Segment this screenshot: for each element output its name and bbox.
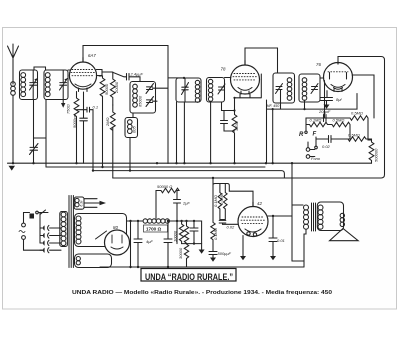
bypass capacitor C7 [221, 111, 235, 132]
tube V5 output 42 [238, 202, 268, 237]
resistor R7 0.1Mohm horizontal [306, 122, 329, 127]
switch pole [315, 146, 318, 149]
grid cap wire V2 [245, 48, 278, 73]
IF2 trimmer [276, 84, 283, 94]
capacitor C9 20uuF [306, 115, 326, 125]
label 1700 [144, 225, 168, 232]
resistor Rb 0.5M vertical [223, 184, 228, 220]
bus 3 [93, 171, 284, 178]
HV winding [76, 216, 81, 244]
svg-text:0.1MΩ: 0.1MΩ [310, 118, 322, 123]
svg-text:76: 76 [316, 62, 321, 67]
svg-text:UNDA “RADIO RURALE.”: UNDA “RADIO RURALE.” [145, 272, 233, 282]
IF transformer 2 primary box B5 [273, 73, 295, 103]
grid resistor R13 [211, 178, 215, 245]
IF1 secondary coil [208, 79, 212, 101]
ground under C17 [210, 258, 216, 262]
svg-text:350Ω: 350Ω [234, 121, 239, 131]
svg-text:0.5MΩ: 0.5MΩ [219, 193, 224, 205]
wire box1 bottom drop [33, 100, 35, 148]
phono jack [306, 148, 310, 152]
bleeder bottom wire [182, 244, 202, 250]
svg-text:500000: 500000 [374, 148, 379, 162]
gang arrow below box2 [62, 100, 64, 104]
coil L1 antenna coil [11, 82, 16, 96]
RF tuned circuit box [44, 70, 68, 100]
fuse block [30, 214, 35, 219]
svg-text:42: 42 [257, 201, 262, 206]
coupling capacitor C15 0.02 [219, 220, 238, 225]
resistor Ra 0.1M vertical [218, 184, 222, 220]
IF2 primary coil [287, 78, 292, 101]
capacitor C5 5000cm [80, 92, 88, 163]
speaker field coil [340, 213, 344, 226]
wire antenna to ground bus [12, 95, 14, 163]
svg-text:0.01: 0.01 [277, 238, 285, 243]
svg-text:500μμF: 500μμF [218, 251, 232, 256]
svg-text:0.1MΩ: 0.1MΩ [213, 228, 218, 240]
svg-text:78: 78 [221, 67, 226, 72]
svg-text:MF. 450: MF. 450 [267, 104, 280, 108]
speaker cone [330, 229, 359, 241]
choke input wire [127, 221, 144, 267]
svg-text:50000: 50000 [104, 83, 109, 95]
wire V2 plate to right [235, 74, 262, 98]
resistor R5 0.5Mohm horizontal [325, 116, 372, 140]
cathode node V2 [235, 94, 241, 114]
trimmer T1 [146, 84, 168, 94]
svg-text:F: F [313, 132, 317, 138]
plate terminal tab of V1 [96, 70, 102, 76]
output transformer secondary [318, 205, 323, 229]
oscillator coil box B1 [130, 82, 156, 114]
switch contact F [315, 137, 317, 146]
svg-text:0.5MΩ: 0.5MΩ [333, 118, 345, 123]
resistor R3 [110, 72, 115, 105]
coil L3 RF coil [45, 73, 50, 97]
wire box2 top to tube grid [68, 69, 70, 71]
speaker box [317, 202, 343, 231]
junction dots on buses [12, 77, 306, 179]
rectifier filament winding [76, 257, 80, 265]
mains wires [24, 213, 44, 251]
svg-text:50000 Ω: 50000 Ω [157, 184, 172, 189]
antenna tuned circuit box [20, 70, 38, 100]
IF2 secondary trimmer [311, 84, 318, 94]
speaker return wire [292, 260, 304, 262]
IF1 secondary trimmer [218, 84, 225, 94]
IF2 secondary coil [302, 78, 307, 101]
capacitor C10 0.02 [316, 136, 346, 143]
screen resistor R2 [99, 76, 105, 168]
transformer bottom wire [304, 230, 306, 268]
grid cap wire V1 to oscillator top [83, 46, 168, 164]
dots bottom [129, 215, 274, 268]
svg-text:6A7: 6A7 [88, 53, 96, 58]
svg-text:2MΩ: 2MΩ [105, 117, 110, 127]
svg-text:80: 80 [113, 225, 118, 230]
tube V1 6A7 [69, 58, 102, 92]
bleeder resistor R11 [179, 221, 183, 244]
cathode ground V5 [242, 236, 244, 257]
svg-text:UNDA RADIO — Modello «Radio Ru: UNDA RADIO — Modello «Radio Rurale». - P… [72, 290, 332, 296]
padder coil [128, 120, 133, 134]
mains squiggle [19, 231, 25, 233]
IF1 trimmer [182, 78, 189, 102]
resistor R6 horizontal [346, 137, 372, 142]
resistor R9 500000 vertical [369, 142, 374, 163]
wire IF2b to V3 grid [320, 77, 324, 79]
bleeder cap C14 [190, 221, 198, 244]
tap contacts row1 [40, 227, 43, 229]
selector bus [40, 213, 44, 244]
trimmer T2 [146, 97, 157, 107]
ground bus [8, 162, 372, 164]
IF1 primary coil [195, 80, 199, 102]
bleeder resistor R12 [184, 221, 188, 267]
svg-text:30000: 30000 [178, 247, 183, 259]
ground arrow left [9, 166, 16, 171]
svg-text:0.5MΩ: 0.5MΩ [348, 133, 360, 138]
transformer core [69, 196, 73, 268]
tube V3 76 [324, 62, 353, 92]
wire IF1 sec to cathode loop [211, 102, 224, 163]
svg-text:2.4μμF: 2.4μμF [130, 72, 144, 77]
wire IF2 ground drop [266, 100, 268, 163]
tap contacts row4 [40, 249, 43, 251]
switch contact R [305, 125, 307, 132]
wire B4 top to tube grid [225, 77, 231, 79]
variable capacitor C1 [30, 70, 38, 100]
IF transformer 1 secondary box B4 [207, 78, 225, 103]
ground under C16 [270, 256, 276, 260]
capacitor C13 2uF [174, 200, 181, 244]
wire B5 coil bottom drop [280, 90, 282, 109]
wire HV lead to rectifier plate [96, 231, 107, 239]
plate wire V5 to output transformer [268, 205, 303, 216]
wire plate of V1 to oscillator cap [102, 72, 127, 77]
output transformer core [312, 203, 316, 231]
wire B6 coil bottom drop [304, 100, 306, 109]
tap contacts row3 [40, 242, 43, 244]
svg-text:2μF: 2μF [182, 201, 190, 206]
svg-text:5000cm: 5000cm [72, 113, 77, 128]
svg-text:0.02: 0.02 [322, 144, 331, 149]
ground under bleeder [199, 250, 205, 254]
output transformer primary [304, 205, 309, 229]
transformer primary coil [60, 212, 68, 247]
svg-text:R: R [299, 132, 304, 138]
wire detector output [325, 81, 327, 119]
wire box2 bottom drop [45, 100, 47, 168]
IF transformer 1 primary box B3 [176, 78, 201, 102]
ground under C8 [324, 105, 330, 109]
wire plate rail drop [291, 163, 293, 261]
svg-text:0.1: 0.1 [93, 104, 99, 109]
wire IF1 bottom to bus [177, 102, 185, 163]
filament wires with arrow [84, 199, 101, 208]
padder coil box B2 [125, 118, 138, 138]
svg-text:20000: 20000 [114, 81, 119, 94]
wire B1 to B2 [130, 113, 133, 171]
svg-text:0.5MΩ: 0.5MΩ [351, 111, 363, 116]
resistor R3b 2Mohm [110, 105, 115, 178]
bypass capacitor C4 0.1 [77, 107, 94, 170]
coil L2 tuned secondary [21, 73, 26, 97]
filter choke 1700 [143, 219, 169, 223]
IF transformer 2 secondary box B6 [299, 74, 320, 102]
svg-text:4μF: 4μF [146, 239, 153, 244]
svg-text:005: 005 [132, 126, 137, 133]
title box [141, 269, 236, 282]
resistor R10 50000 ohm [156, 188, 179, 218]
bridge wire over grid resistors [213, 184, 253, 207]
svg-text:65000: 65000 [138, 95, 143, 107]
mains plug [22, 223, 26, 227]
variable capacitor C2 tuning [60, 70, 68, 100]
choke output wire to B+ [170, 221, 202, 244]
bus 2 [46, 166, 265, 168]
svg-text:0.02: 0.02 [227, 225, 236, 230]
svg-text:750Ω: 750Ω [66, 104, 71, 114]
wire IF1 top [168, 77, 184, 79]
tube V2 78 [231, 61, 260, 95]
svg-text:6.3v: 6.3v [80, 200, 84, 206]
oscillator coil [133, 84, 138, 107]
tone capacitor C16 0.01 [269, 216, 277, 256]
grid cap wire V3 to right rail [113, 57, 385, 179]
filter capacitor C11 4uF [134, 221, 142, 267]
tube V4 80 rectifier [105, 230, 130, 255]
tap contacts row2 [40, 235, 43, 237]
capacitor C6 24uuF [127, 74, 141, 82]
svg-text:Fono: Fono [311, 156, 321, 161]
cathode resistor R4 350 ohm [232, 115, 237, 164]
rectifier box wires [75, 214, 127, 247]
wire AVC line under IF2 [267, 94, 358, 164]
filament winding 6.3 [74, 197, 84, 209]
capacitor C17 500uuF [209, 245, 217, 258]
wire box1 top jog to box2 [34, 67, 46, 70]
bottom bus [100, 266, 304, 268]
resistor R8 horizontal [329, 122, 350, 139]
svg-text:8μf: 8μf [336, 97, 342, 102]
wire V3 plate to rail [352, 75, 374, 118]
svg-text:20μμF: 20μμF [318, 109, 331, 114]
cathode resistor R1 750 ohm [74, 92, 79, 164]
trimmer capacitor C3 [30, 138, 47, 163]
capacitor C8 8uF [321, 91, 333, 105]
antenna [8, 44, 19, 84]
svg-text:10000: 10000 [173, 230, 178, 242]
switch contact [36, 211, 39, 214]
filter capacitor C12 4uF [164, 221, 172, 267]
svg-text:0.1MΩ: 0.1MΩ [213, 195, 218, 207]
svg-text:1700 Ω: 1700 Ω [146, 227, 161, 232]
